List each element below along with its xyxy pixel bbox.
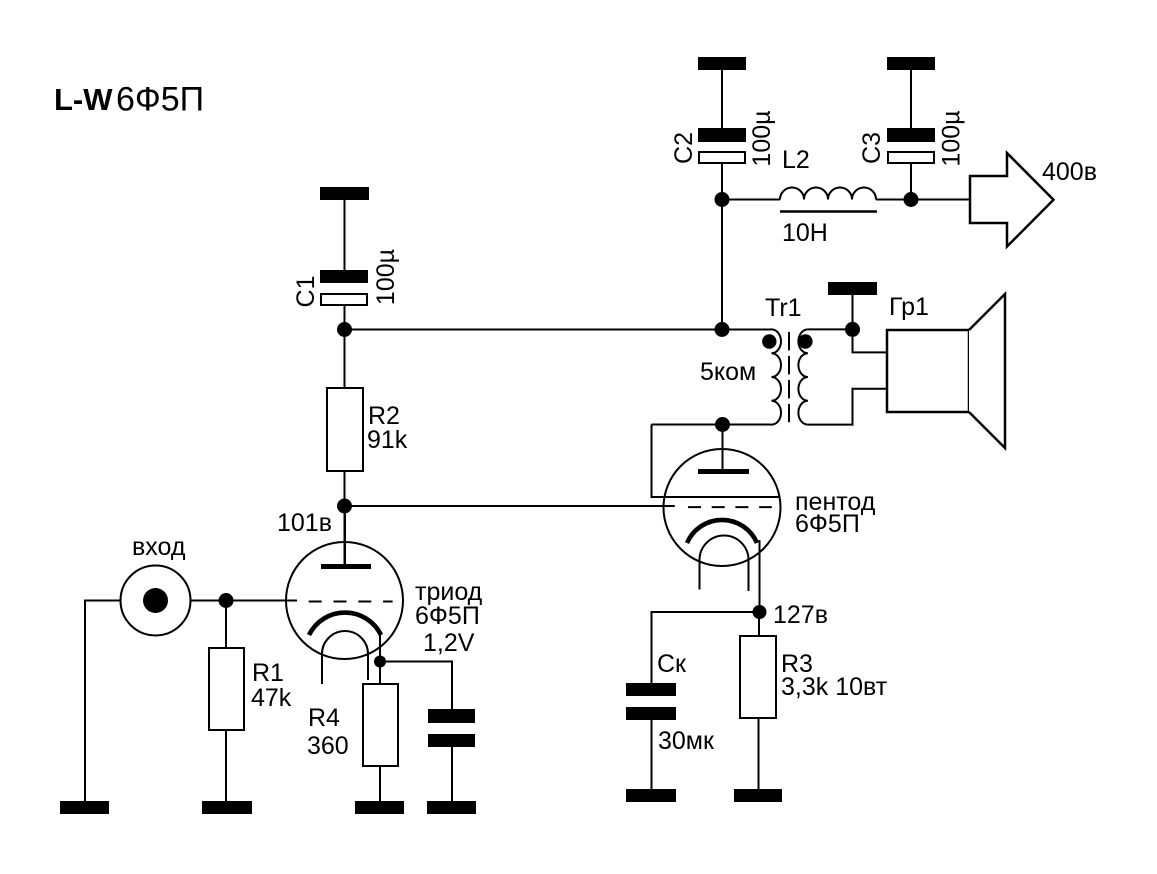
- svg-text:400в: 400в: [1042, 158, 1097, 186]
- svg-text:C2: C2: [670, 132, 698, 164]
- svg-text:Ск: Ск: [657, 650, 687, 678]
- svg-text:6Ф5П: 6Ф5П: [116, 81, 204, 119]
- svg-text:127в: 127в: [773, 601, 828, 629]
- svg-text:1,2V: 1,2V: [423, 629, 475, 657]
- svg-text:47k: 47k: [251, 684, 292, 712]
- svg-text:R4: R4: [308, 704, 340, 732]
- svg-text:Гр1: Гр1: [889, 293, 929, 321]
- svg-text:L2: L2: [782, 146, 810, 174]
- svg-text:C3: C3: [858, 132, 886, 164]
- svg-text:100µ: 100µ: [372, 249, 400, 305]
- svg-text:10H: 10H: [782, 219, 828, 247]
- svg-text:вход: вход: [132, 533, 186, 561]
- svg-text:100µ: 100µ: [748, 110, 776, 166]
- svg-text:C1: C1: [292, 276, 320, 308]
- svg-text:6Ф5П: 6Ф5П: [415, 602, 480, 630]
- svg-text:R1: R1: [252, 659, 284, 687]
- svg-text:L-W: L-W: [54, 82, 113, 117]
- svg-text:100µ: 100µ: [938, 110, 966, 166]
- svg-text:30мк: 30мк: [658, 727, 715, 755]
- svg-text:360: 360: [307, 732, 349, 760]
- svg-text:6Ф5П: 6Ф5П: [795, 510, 860, 538]
- svg-text:Tr1: Tr1: [765, 294, 802, 322]
- svg-text:5ком: 5ком: [700, 358, 756, 386]
- svg-text:101в: 101в: [277, 509, 332, 537]
- svg-text:91k: 91k: [367, 426, 408, 454]
- svg-text:3,3k 10вт: 3,3k 10вт: [781, 673, 888, 701]
